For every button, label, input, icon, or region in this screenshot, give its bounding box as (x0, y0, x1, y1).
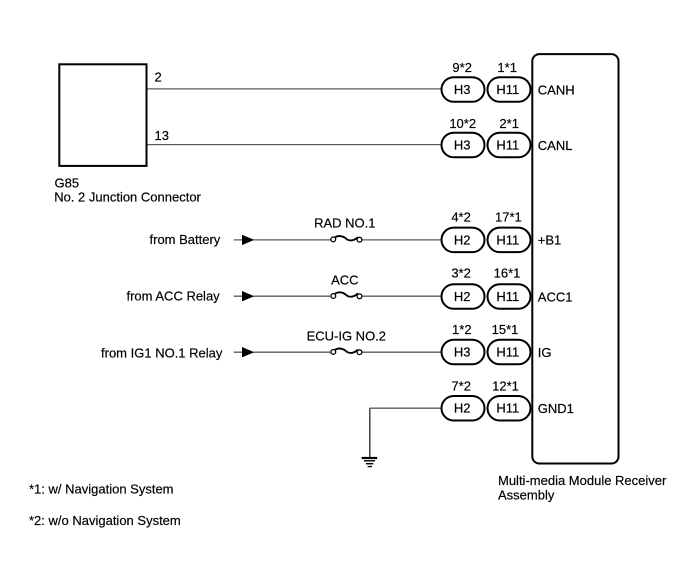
svg-text:10*2: 10*2 (449, 116, 476, 131)
svg-text:CANH: CANH (538, 82, 575, 97)
svg-text:9*2: 9*2 (452, 60, 472, 75)
svg-text:H11: H11 (496, 233, 519, 248)
svg-text:G85: G85 (55, 176, 80, 191)
svg-text:H2: H2 (454, 289, 471, 304)
svg-text:H3: H3 (454, 345, 471, 360)
svg-text:15*1: 15*1 (492, 322, 519, 337)
svg-text:17*1: 17*1 (495, 210, 522, 225)
svg-text:from ACC Relay: from ACC Relay (126, 289, 220, 304)
svg-text:1*1: 1*1 (497, 60, 517, 75)
svg-text:RAD NO.1: RAD NO.1 (314, 215, 375, 230)
svg-text:1*2: 1*2 (452, 322, 472, 337)
svg-text:ACC1: ACC1 (538, 289, 573, 304)
svg-text:H2: H2 (454, 233, 471, 248)
svg-text:from Battery: from Battery (150, 232, 221, 247)
svg-text:+B1: +B1 (538, 233, 562, 248)
svg-text:4*2: 4*2 (451, 210, 471, 225)
svg-text:ACC: ACC (331, 272, 358, 287)
svg-text:H11: H11 (496, 289, 519, 304)
svg-text:H3: H3 (454, 82, 471, 97)
svg-text:3*2: 3*2 (451, 265, 471, 280)
svg-text:No. 2 Junction Connector: No. 2 Junction Connector (54, 189, 201, 204)
svg-text:13: 13 (155, 128, 169, 143)
svg-text:CANL: CANL (538, 138, 573, 153)
svg-text:GND1: GND1 (538, 401, 574, 416)
svg-text:*1: w/ Navigation System: *1: w/ Navigation System (29, 482, 174, 497)
svg-text:H2: H2 (454, 401, 471, 416)
svg-text:H11: H11 (496, 138, 519, 153)
svg-text:H11: H11 (496, 345, 519, 360)
svg-text:ECU-IG NO.2: ECU-IG NO.2 (307, 329, 386, 344)
svg-text:Multi-media Module Receiver: Multi-media Module Receiver (498, 473, 667, 488)
svg-text:12*1: 12*1 (492, 378, 519, 393)
svg-text:2: 2 (155, 69, 162, 84)
svg-text:2*1: 2*1 (499, 116, 519, 131)
svg-text:from IG1 NO.1 Relay: from IG1 NO.1 Relay (101, 345, 223, 360)
svg-text:H11: H11 (496, 82, 519, 97)
svg-text:IG: IG (538, 345, 552, 360)
svg-text:H11: H11 (496, 401, 519, 416)
svg-text:16*1: 16*1 (494, 265, 521, 280)
svg-text:H3: H3 (454, 138, 471, 153)
svg-text:7*2: 7*2 (451, 378, 471, 393)
svg-text:*2: w/o Navigation System: *2: w/o Navigation System (29, 513, 181, 528)
svg-text:Assembly: Assembly (498, 488, 555, 503)
